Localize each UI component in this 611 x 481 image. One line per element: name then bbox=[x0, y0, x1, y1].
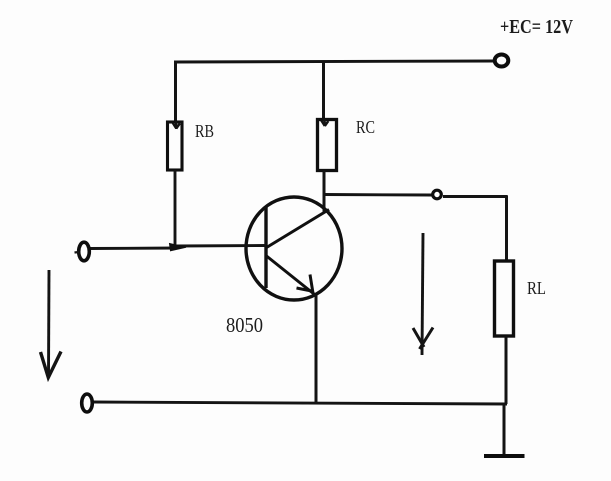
ground bbox=[484, 454, 525, 458]
node base-RB junction arrowhead bbox=[170, 244, 187, 251]
arrow input current head bbox=[41, 352, 62, 378]
svg-text:RB: RB bbox=[195, 121, 214, 141]
wire emitter to bottom rail bbox=[315, 295, 318, 404]
wire ground stub bbox=[503, 404, 506, 455]
terminal output bbox=[433, 190, 442, 199]
resistor RB bbox=[168, 122, 183, 170]
terminal input bbox=[79, 242, 90, 261]
wire top-left corner down to RB bbox=[174, 61, 177, 123]
svg-text:RL: RL bbox=[527, 278, 546, 298]
arrow output current head bbox=[413, 328, 433, 350]
terminal +EC supply bbox=[495, 55, 509, 67]
terminal input left tick bbox=[75, 251, 80, 254]
transistor Q1 emitter arrowhead bbox=[297, 275, 313, 292]
wire collector lead bbox=[323, 171, 326, 212]
wire RL bottom to bottom rail bbox=[505, 336, 508, 404]
wire output right segment bbox=[443, 195, 508, 198]
wire RB lead overshoot arrow bbox=[173, 121, 180, 129]
arrow input current shaft bbox=[47, 270, 50, 375]
wire top-rail bbox=[174, 61, 494, 62]
terminal ground-left bbox=[82, 394, 93, 412]
transistor Q1 collector stroke bbox=[267, 210, 330, 248]
wire RB bottom to base wire bbox=[174, 170, 177, 247]
arrow output current shaft bbox=[422, 233, 423, 355]
wire bottom-rail bbox=[93, 402, 507, 404]
resistor RC bbox=[318, 120, 337, 171]
wire output left segment bbox=[324, 193, 432, 196]
transistor Q1 base bar bbox=[264, 207, 267, 289]
wire RC lead overshoot arrow bbox=[321, 119, 328, 126]
resistor RL bbox=[495, 261, 514, 336]
svg-text:+EC= 12V: +EC= 12V bbox=[500, 16, 573, 38]
wire base input right segment bbox=[176, 244, 266, 247]
svg-text:8050: 8050 bbox=[226, 313, 263, 337]
transistor Q1 circle bbox=[246, 197, 342, 300]
wire base input left segment bbox=[89, 247, 178, 250]
transistor Q1 emitter stroke bbox=[267, 256, 317, 296]
svg-text:RC: RC bbox=[356, 117, 375, 137]
wire top rail down to RC bbox=[322, 61, 325, 121]
wire right vertical to RL bbox=[505, 196, 508, 263]
